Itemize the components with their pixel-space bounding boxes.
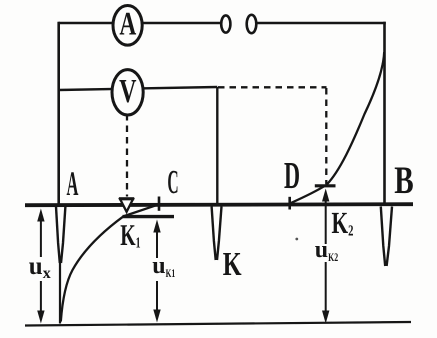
svg-text:D: D <box>284 155 300 197</box>
wire: dashed vertical down to contact K2 <box>325 88 327 184</box>
wire: left vertical from top wire down to node A on rail <box>57 22 60 205</box>
arrow ux (double headed, A potential) <box>40 219 42 313</box>
svg-text:uK1: uK1 <box>152 253 175 280</box>
voltmeter V1 <box>112 70 143 115</box>
svg-text:V: V <box>119 73 137 110</box>
probe tip K (galvanometer probe) <box>212 207 222 261</box>
wire: right vertical from top wire down to node B on rail <box>383 22 386 205</box>
svg-text:A: A <box>66 165 78 203</box>
switch S1 (two open terminals) <box>221 15 230 32</box>
wire: top loop right segment after switch <box>257 22 386 25</box>
svg-text:K1: K1 <box>120 218 140 252</box>
wire: vertical to probe K <box>216 87 218 204</box>
ammeter A1 <box>113 6 142 46</box>
arrow uK1 (double headed) <box>156 230 158 312</box>
arrow uK2 (double headed, from contact K2 to bottom) <box>325 198 327 312</box>
curve: potential distribution right (D to B) <box>290 52 385 204</box>
node D tick <box>288 197 291 210</box>
svg-text:K: K <box>223 245 243 282</box>
stray scan dot <box>295 238 298 241</box>
rail: slide wire A-B <box>25 204 413 205</box>
curve: potential distribution left (A to C) <box>61 204 159 321</box>
bottom reference line <box>25 322 411 326</box>
slider jockey triangle at K1 <box>120 199 133 212</box>
svg-text:K2: K2 <box>332 206 354 240</box>
svg-text:C: C <box>167 164 178 201</box>
contact bar K2 <box>315 184 336 187</box>
wire: top loop left segment (battery/ammeter branch) <box>59 22 222 25</box>
svg-text:A: A <box>119 6 136 42</box>
probe tip at node B <box>381 207 392 267</box>
probe tip at node A <box>56 207 65 264</box>
wire: dashed vertical from voltmeter V down to slider K1 <box>126 114 128 197</box>
svg-text:uK2: uK2 <box>315 237 339 264</box>
wire: voltmeter branch horizontal <box>59 87 218 90</box>
reference drop line from A probe tip to bottom line <box>59 263 61 324</box>
contact bar K1 <box>123 215 175 218</box>
wire: dashed horizontal from K junction to above K2 <box>218 86 327 88</box>
svg-text:ux: ux <box>29 253 51 282</box>
node C tick <box>158 197 161 211</box>
svg-text:B: B <box>394 159 413 202</box>
